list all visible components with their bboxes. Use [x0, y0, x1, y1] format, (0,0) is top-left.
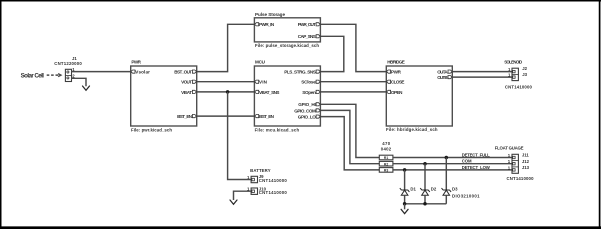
- svg-text:R2: R2: [384, 162, 388, 166]
- wire SOpen to OPEN: [320, 91, 386, 93]
- svg-text:DETECT_FULL: DETECT_FULL: [462, 152, 490, 157]
- svg-text:BST_EN: BST_EN: [259, 114, 275, 119]
- svg-text:J1: J1: [72, 56, 77, 61]
- wire VOUT to VIN: [197, 81, 255, 83]
- pin CLOSE: [387, 80, 391, 83]
- svg-text:CNT1410000: CNT1410000: [259, 190, 288, 195]
- pin VBAT: [192, 90, 196, 93]
- svg-text:File: mcu.kicad_sch: File: mcu.kicad_sch: [255, 128, 300, 133]
- pin VBAT_SNS: [255, 90, 259, 93]
- svg-text:BST_EN: BST_EN: [177, 114, 193, 119]
- wire GPIO_HI to R1: [320, 104, 379, 157]
- svg-text:PWR_IN: PWR_IN: [259, 22, 275, 27]
- wires below diodes to rail: [404, 195, 406, 204]
- svg-text:File: pulse_storage.kicad_sch: File: pulse_storage.kicad_sch: [255, 43, 319, 48]
- pin VIN: [255, 80, 259, 83]
- svg-text:SOpen: SOpen: [302, 90, 316, 95]
- svg-text:PLS_STRG_SNS: PLS_STRG_SNS: [284, 69, 316, 74]
- SOLENOID connector J2 J3: [504, 60, 532, 90]
- svg-text:470: 470: [382, 141, 390, 146]
- svg-text:DIO3210001: DIO3210001: [452, 194, 480, 199]
- svg-text:GPIO_LO: GPIO_LO: [298, 114, 316, 119]
- wire D1 vertical: [404, 170, 406, 190]
- svg-text:Solar Cell: Solar Cell: [21, 73, 45, 80]
- svg-text:MCU: MCU: [255, 60, 266, 65]
- junction D2 tap: [423, 162, 427, 166]
- pin OPEN: [387, 90, 391, 93]
- svg-text:CNT1220000: CNT1220000: [54, 61, 82, 66]
- pin GPIO_COM: [316, 109, 320, 112]
- ground J1: [83, 86, 90, 90]
- connector J1 CNT1220000: [54, 56, 82, 82]
- wire OUTA to J2: [452, 71, 512, 73]
- resistor R3: [379, 168, 393, 173]
- resistor R1: [379, 155, 393, 160]
- pin CAP_SNS: [316, 35, 320, 38]
- pin Vsolar: [131, 70, 135, 73]
- svg-text:CNT1410000: CNT1410000: [505, 85, 533, 90]
- page border frame: [0, 0, 601, 2]
- ground diodes: [401, 209, 408, 213]
- svg-text:FLOAT GUAGE: FLOAT GUAGE: [495, 146, 524, 151]
- junction D1 tap: [403, 168, 407, 172]
- sheet HBRIDGE: [386, 60, 452, 133]
- wire J1 pin2 to ground: [72, 78, 87, 86]
- svg-text:PWR: PWR: [391, 69, 402, 74]
- svg-text:VBAT_SNS: VBAT_SNS: [259, 90, 280, 95]
- svg-text:J3: J3: [522, 72, 527, 77]
- ground J10: [230, 200, 237, 204]
- svg-text:CNT1410000: CNT1410000: [507, 176, 535, 181]
- svg-text:OPEN: OPEN: [391, 90, 403, 95]
- svg-text:SClose: SClose: [301, 80, 316, 85]
- svg-text:PWR_OUT: PWR_OUT: [298, 22, 316, 27]
- wire CAP_SNS to PLS_STRG_SNS: [320, 36, 343, 71]
- diode D2: [420, 188, 430, 195]
- pin GPIO_HI: [316, 103, 320, 106]
- svg-text:VIN: VIN: [259, 80, 268, 85]
- svg-text:OUTB: OUTB: [437, 75, 448, 80]
- wire BST_OUT to PWR_IN: [197, 24, 255, 71]
- wire VBAT down to battery J9: [228, 92, 252, 180]
- svg-text:CNT1410000: CNT1410000: [259, 178, 288, 183]
- svg-text:HBRIDGE: HBRIDGE: [387, 60, 405, 65]
- svg-text:GPIO_COM: GPIO_COM: [294, 108, 316, 113]
- svg-text:VOUT: VOUT: [181, 80, 192, 85]
- svg-text:J2: J2: [522, 66, 527, 71]
- svg-text:R1: R1: [384, 156, 388, 160]
- pin SOpen: [316, 90, 320, 93]
- wire GPIO_LO to R3: [320, 117, 379, 170]
- wire OUTB to J3: [452, 76, 512, 78]
- svg-text:COM: COM: [462, 159, 472, 164]
- pin BST_EN left: [255, 115, 259, 118]
- svg-text:J11: J11: [522, 153, 530, 158]
- svg-text:CLOSE: CLOSE: [391, 80, 405, 85]
- pin PWR_OUT: [316, 23, 320, 26]
- junction rail D2: [423, 202, 427, 206]
- svg-text:SOLENOID: SOLENOID: [504, 60, 522, 65]
- wire SClose to CLOSE: [320, 81, 386, 83]
- wire J1 pin1 to PWR Vsolar: [72, 71, 131, 73]
- dashed arrow: [47, 74, 61, 77]
- sheet MCU: [254, 60, 320, 133]
- svg-text:GPIO_HI: GPIO_HI: [298, 102, 316, 107]
- pin OUTB: [448, 76, 452, 79]
- svg-text:J13: J13: [522, 165, 530, 170]
- junction VBAT: [226, 90, 230, 94]
- ground rail: [405, 203, 447, 205]
- sheet Pulse Storage: [254, 12, 320, 48]
- svg-text:CAP_SNS: CAP_SNS: [298, 34, 316, 39]
- pin PWR: [387, 70, 391, 73]
- wire VBAT to VBAT_SNS: [197, 91, 255, 93]
- wire BST_EN: [197, 115, 255, 117]
- svg-text:D2: D2: [431, 187, 437, 192]
- pin PLS_STRG_SNS: [316, 70, 320, 73]
- pin OUTA: [448, 70, 452, 73]
- diode D1: [400, 188, 410, 195]
- svg-text:BST_OUT: BST_OUT: [174, 69, 192, 74]
- svg-text:0402: 0402: [381, 146, 392, 151]
- sheet PWR: [131, 60, 197, 133]
- diode D3: [442, 188, 452, 195]
- wire COM row: [393, 163, 512, 165]
- svg-text:J12: J12: [522, 159, 530, 164]
- pin PWR_IN: [255, 23, 259, 26]
- svg-text:DETECT_LOW: DETECT_LOW: [462, 165, 491, 170]
- svg-text:VBAT: VBAT: [181, 90, 192, 95]
- ground stub: [404, 204, 406, 210]
- wire GPIO_COM to R2: [320, 110, 379, 163]
- wire D3 vertical: [445, 158, 447, 191]
- wire D2 vertical: [424, 164, 426, 190]
- pin BST_OUT: [192, 70, 196, 73]
- pin GPIO_LO: [316, 115, 320, 118]
- wire DETECT_LOW row: [393, 169, 512, 171]
- pin BST_EN right: [192, 115, 196, 118]
- svg-text:Pulse Storage: Pulse Storage: [255, 12, 285, 17]
- FLOAT GUAGE connector J11 J12 J13: [495, 146, 534, 182]
- svg-text:R3: R3: [384, 169, 388, 173]
- svg-text:D3: D3: [452, 187, 458, 192]
- wire PWR_OUT to HBRIDGE PWR: [320, 24, 386, 71]
- BATTERY connectors J9 J10: [247, 168, 287, 195]
- svg-text:PWR: PWR: [131, 60, 141, 65]
- svg-text:File: hbridge.kicad_sch: File: hbridge.kicad_sch: [386, 127, 438, 132]
- junction D3 tap: [445, 156, 449, 160]
- junction rail D1: [403, 202, 407, 206]
- pin VOUT: [192, 80, 196, 83]
- resistor R2: [379, 161, 393, 166]
- wire DETECT_FULL row: [393, 157, 512, 159]
- svg-text:File: pwr.kicad_sch: File: pwr.kicad_sch: [131, 128, 172, 133]
- svg-text:Vsolar: Vsolar: [135, 69, 150, 74]
- svg-text:BATTERY: BATTERY: [250, 168, 271, 173]
- svg-text:D1: D1: [410, 187, 416, 192]
- wire J10 to ground: [234, 191, 252, 200]
- svg-text:OUTA: OUTA: [437, 69, 448, 74]
- pin SClose: [316, 80, 320, 83]
